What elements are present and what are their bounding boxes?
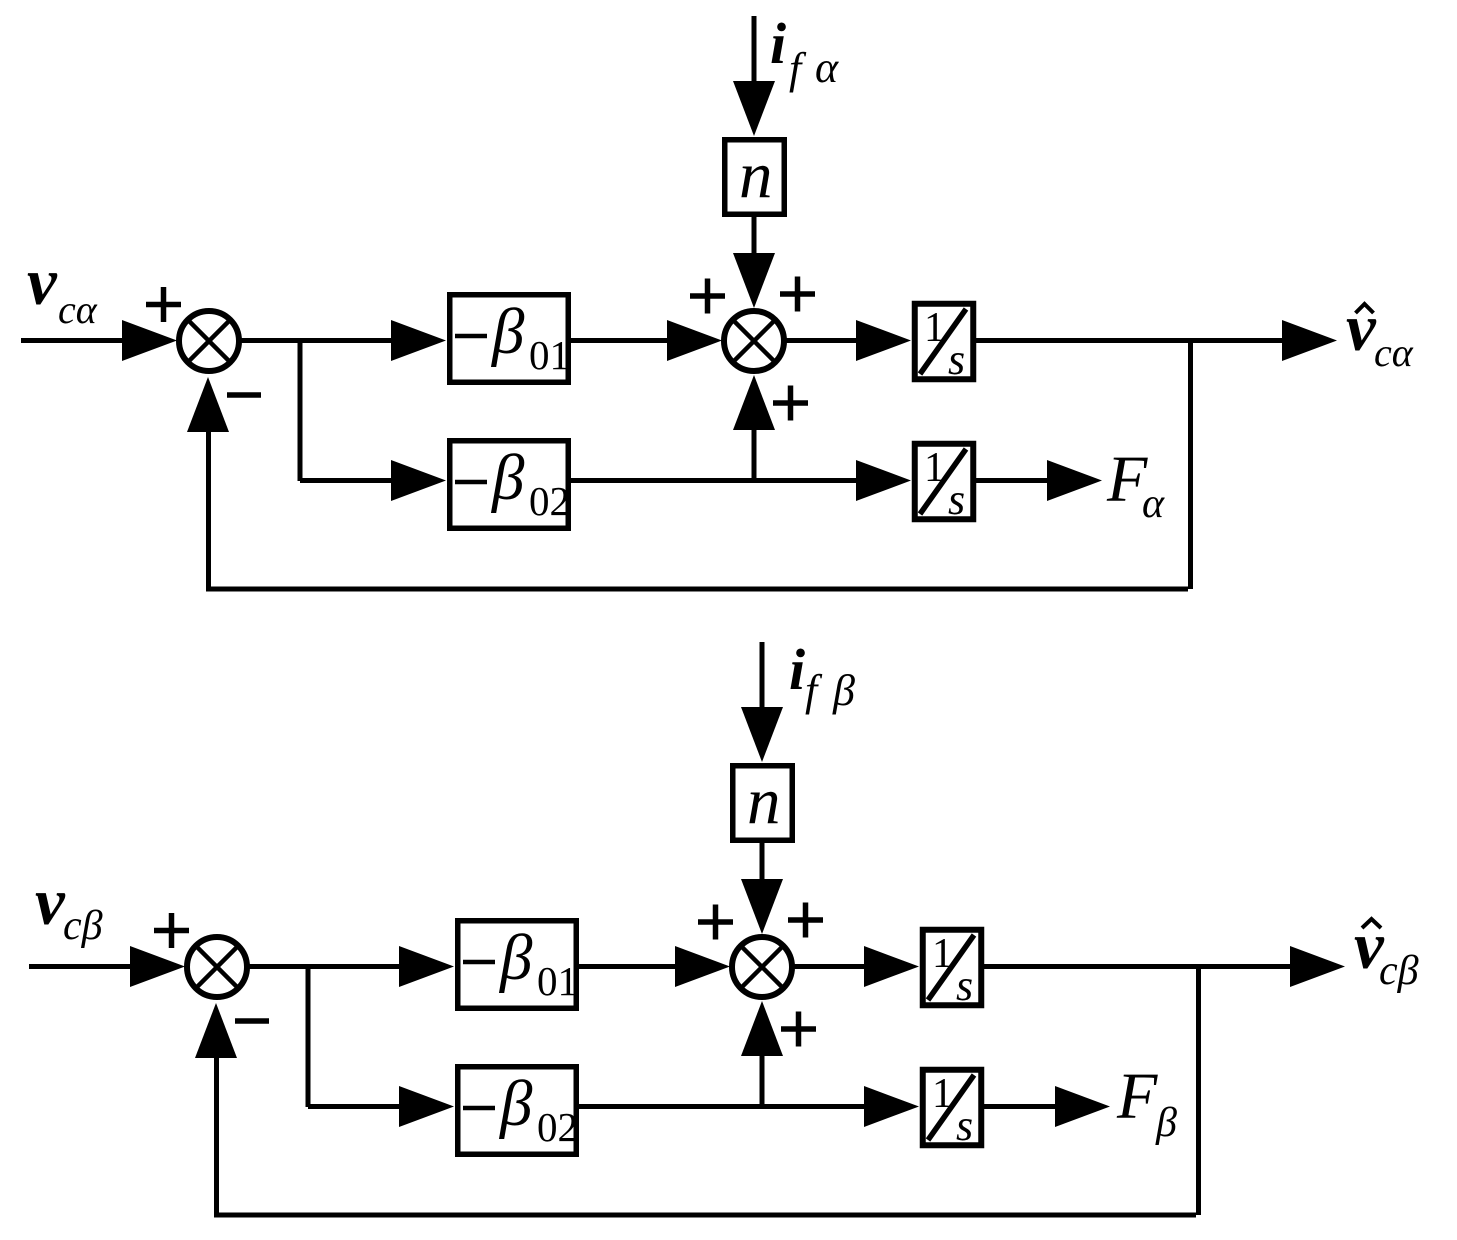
wire N1 to S2: [752, 217, 757, 258]
plus sign at S2 top input: [780, 277, 815, 312]
plus sign at S1b left input: [154, 913, 189, 948]
integrator I2b: [923, 1070, 982, 1150]
wire node A to B02: [300, 478, 396, 483]
svg-text:1: 1: [924, 305, 945, 351]
svg-text:i: i: [770, 11, 786, 76]
svg-text:s: s: [956, 961, 973, 1010]
label v_ca_hat: [1346, 291, 1414, 375]
svg-text:i: i: [789, 637, 805, 702]
svg-text:v: v: [35, 865, 66, 939]
arrowhead into S2 top: [733, 253, 775, 308]
wire B01b to S2b: [579, 964, 680, 969]
wire S2 to integrator I1: [785, 338, 861, 343]
label -beta01: [455, 296, 570, 378]
svg-text:β: β: [498, 922, 533, 994]
wire S1 to node A: [240, 338, 396, 343]
svg-text:cα: cα: [58, 287, 98, 332]
label i_fb: [789, 637, 855, 715]
svg-text:v: v: [27, 245, 58, 319]
arrowhead into S1 bottom: [187, 377, 229, 432]
wire node Ab to B02b: [308, 1104, 404, 1109]
svg-text:F: F: [1116, 1060, 1158, 1133]
wire B02b to integrator I2b: [579, 1104, 869, 1109]
feedback wire down from output node: [1188, 338, 1193, 589]
svg-text:f: f: [789, 44, 807, 93]
label F_a: [1106, 443, 1165, 527]
arrowhead F_a: [1047, 460, 1102, 501]
arrowhead into block N1b: [741, 707, 783, 762]
label v_cb_hat: [1354, 909, 1419, 994]
arrowhead into I1: [856, 320, 911, 361]
svg-text:02: 02: [537, 1104, 578, 1150]
wire S1b to node Ab: [248, 964, 404, 969]
plus sign at S2 bottom input: [773, 386, 808, 421]
node A branch wire down: [298, 338, 303, 481]
svg-text:β: β: [832, 666, 855, 715]
arrowhead into block N1: [733, 81, 775, 136]
arrowhead output b: [1290, 946, 1345, 987]
svg-text:02: 02: [529, 478, 570, 524]
svg-text:β: β: [498, 1068, 533, 1140]
svg-text:β: β: [1155, 1100, 1177, 1146]
block N1: [725, 140, 785, 215]
plus sign at S2 left input: [690, 279, 725, 314]
plus sign at S2b top input: [788, 903, 823, 938]
arrowhead into S1b bottom: [195, 1003, 237, 1058]
arrowhead into I2: [856, 460, 911, 501]
feedback wire bottom: [206, 587, 1188, 592]
svg-text:α: α: [1142, 481, 1165, 527]
arrowhead output: [1282, 320, 1337, 361]
block B02b: [458, 1067, 577, 1155]
svg-text:s: s: [948, 335, 965, 384]
wire B01 to S2: [571, 338, 672, 343]
wire N1b to S2b: [760, 843, 765, 884]
label i_fa: [770, 11, 839, 93]
label -beta01 b: [463, 922, 578, 1004]
node Ab branch wire down: [306, 964, 311, 1107]
plus sign at S2b left input: [698, 905, 733, 940]
svg-text:n: n: [739, 138, 773, 212]
arrowhead into block B02: [391, 460, 446, 501]
svg-text:01: 01: [537, 958, 578, 1004]
plus sign at S1 left input: [146, 287, 181, 322]
svg-text:cβ: cβ: [1379, 948, 1419, 994]
feedback wire down from output node b: [1196, 964, 1201, 1215]
block N1b: [733, 766, 793, 841]
label F_b: [1116, 1060, 1177, 1146]
wire input v_cb: [29, 964, 148, 969]
arrowhead into S2b bottom: [741, 1001, 783, 1056]
arrowhead into S2b top: [741, 879, 783, 934]
label v_cb: [35, 865, 103, 949]
block B02: [450, 441, 569, 529]
svg-text:cβ: cβ: [63, 903, 103, 949]
minus sign at S1 feedback input: [227, 392, 261, 398]
arrowhead into summing junction S1b: [130, 946, 185, 987]
arrowhead into summing junction S1: [122, 320, 177, 361]
summing junction S1: [179, 311, 239, 371]
arrowhead into I2b: [864, 1086, 919, 1127]
summing junction S2: [724, 311, 784, 371]
arrowhead into S2 bottom: [733, 375, 775, 430]
wire B02 to integrator I2: [571, 478, 861, 483]
minus sign at S1b feedback input: [235, 1018, 269, 1024]
svg-text:cα: cα: [1374, 330, 1414, 375]
plus sign at S2b bottom input: [781, 1012, 816, 1047]
feedback wire up to S1: [206, 432, 211, 591]
summing junction S1b: [187, 937, 247, 997]
svg-text:β: β: [490, 296, 525, 368]
arrowhead into I1b: [864, 946, 919, 987]
svg-text:α: α: [815, 43, 839, 92]
wire I2b to F_b: [984, 1104, 1060, 1109]
node Bb wire up to S2b: [760, 1056, 765, 1107]
wire S2b to integrator I1b: [793, 964, 869, 969]
label v_ca: [27, 245, 98, 332]
feedback wire up to S1b: [214, 1058, 219, 1217]
arrowhead into block B01b: [399, 946, 454, 987]
block B01b: [458, 921, 577, 1009]
node B wire up to S2: [752, 430, 757, 481]
label -beta02: [455, 442, 570, 524]
arrowhead into block B02b: [399, 1086, 454, 1127]
summing junction S2b: [732, 937, 792, 997]
integrator I1b: [923, 930, 982, 1010]
arrowhead into block B01: [391, 320, 446, 361]
svg-text:1: 1: [924, 445, 945, 491]
svg-text:01: 01: [529, 332, 570, 378]
wire input i_fa: [752, 16, 757, 86]
label -beta02 b: [463, 1068, 578, 1150]
block B01: [450, 295, 569, 383]
svg-text:s: s: [956, 1101, 973, 1150]
svg-text:1: 1: [932, 1071, 953, 1117]
svg-text:s: s: [948, 475, 965, 524]
arrowhead into S2b left: [675, 946, 730, 987]
wire input i_fb: [760, 642, 765, 712]
arrowhead into S2 left: [667, 320, 722, 361]
feedback wire bottom b: [214, 1213, 1196, 1218]
wire input v_ca: [21, 338, 140, 343]
integrator I1: [915, 304, 974, 384]
wire I2 to F_a: [976, 478, 1052, 483]
svg-text:f: f: [805, 666, 823, 715]
arrowhead F_b: [1055, 1086, 1110, 1127]
integrator I2: [915, 444, 974, 524]
svg-text:1: 1: [932, 931, 953, 977]
svg-text:β: β: [490, 442, 525, 514]
svg-text:v: v: [1346, 291, 1377, 365]
wire I1b to output: [984, 964, 1294, 969]
wire I1 to output: [976, 338, 1286, 343]
svg-text:n: n: [747, 764, 781, 838]
